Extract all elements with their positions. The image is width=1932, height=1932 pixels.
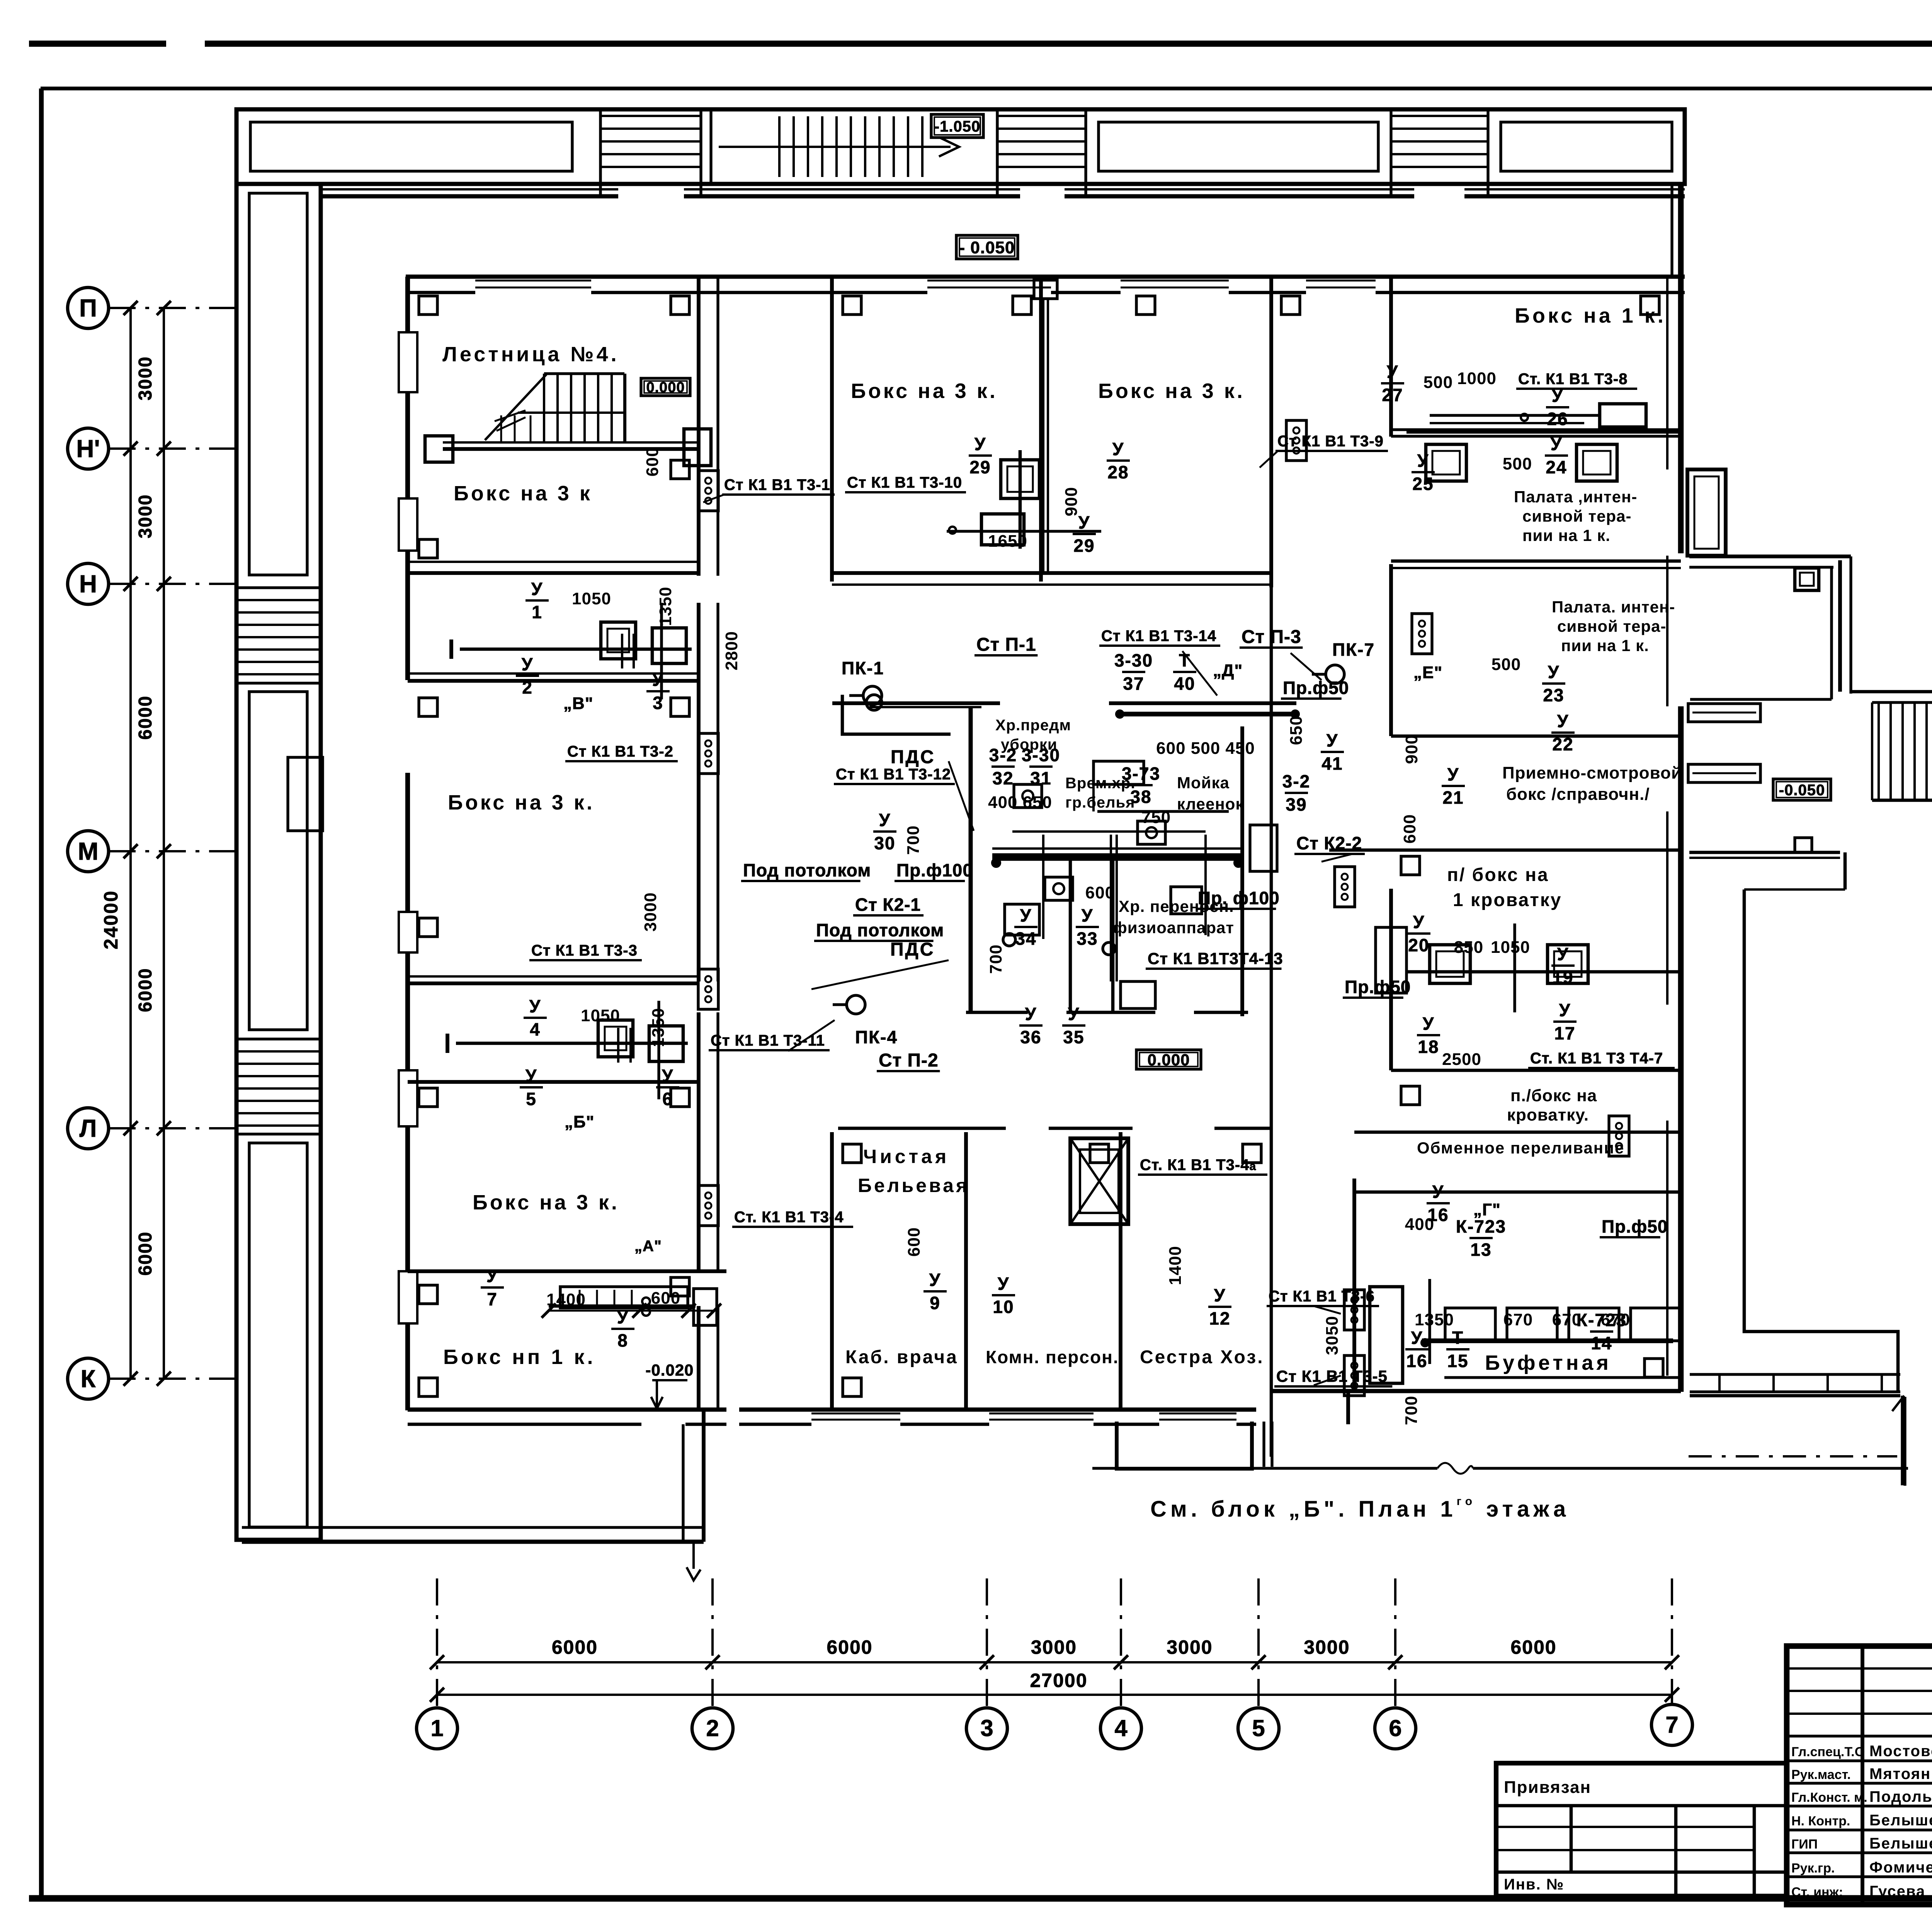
svg-text:Фомичев: Фомичев	[1869, 1859, 1932, 1876]
svg-text:„В": „В"	[563, 694, 594, 713]
svg-text:9: 9	[930, 1293, 940, 1313]
svg-text:Пр.ф50: Пр.ф50	[1283, 678, 1349, 698]
svg-text:1400: 1400	[546, 1290, 586, 1309]
svg-text:6000: 6000	[135, 1231, 156, 1276]
svg-text:У: У	[1557, 944, 1569, 964]
svg-text:33: 33	[1077, 929, 1098, 949]
svg-text:Мойка: Мойка	[1177, 774, 1230, 792]
svg-text:3-73: 3-73	[1122, 764, 1160, 784]
svg-text:650: 650	[1287, 716, 1306, 745]
svg-text:13: 13	[1470, 1240, 1492, 1260]
svg-text:У: У	[531, 579, 543, 599]
svg-text:Ст К1 В1 Т3-6: Ст К1 В1 Т3-6	[1269, 1288, 1375, 1305]
svg-text:У: У	[1327, 730, 1338, 750]
svg-text:36: 36	[1020, 1027, 1041, 1047]
svg-text:Ст К1 В1 Т3-11: Ст К1 В1 Т3-11	[711, 1032, 825, 1049]
svg-text:600: 600	[643, 447, 662, 476]
svg-text:-0.050: -0.050	[1779, 782, 1825, 799]
svg-text:Ст. К1 В1 Т3 Т4-7: Ст. К1 В1 Т3 Т4-7	[1530, 1050, 1663, 1067]
svg-text:Ст К1 В1 Т3-5: Ст К1 В1 Т3-5	[1276, 1367, 1388, 1385]
svg-text:700: 700	[986, 944, 1005, 974]
svg-text:37: 37	[1123, 673, 1144, 694]
svg-text:„Б": „Б"	[565, 1112, 595, 1131]
svg-text:Рук.маст.: Рук.маст.	[1791, 1767, 1851, 1782]
svg-text:пии на 1 к.: пии на 1 к.	[1522, 526, 1611, 544]
svg-text:Гл.Конст. м.: Гл.Конст. м.	[1791, 1790, 1867, 1805]
svg-text:Бокс на 3 к.: Бокс на 3 к.	[473, 1191, 619, 1214]
svg-text:670: 670	[1601, 1310, 1630, 1329]
svg-text:У: У	[1020, 905, 1032, 925]
svg-text:2800: 2800	[722, 631, 741, 670]
svg-text:Приемно-смотровой: Приемно-смотровой	[1502, 764, 1682, 782]
svg-text:500: 500	[1423, 373, 1453, 392]
svg-text:Ст К1 В1 Т3-10: Ст К1 В1 Т3-10	[847, 474, 962, 491]
svg-text:3000: 3000	[135, 494, 156, 539]
svg-text:4: 4	[530, 1019, 541, 1039]
svg-text:1400: 1400	[1166, 1246, 1185, 1285]
svg-text:кроватку.: кроватку.	[1507, 1105, 1589, 1124]
svg-text:Чистая: Чистая	[863, 1146, 949, 1167]
svg-text:Палата. интен-: Палата. интен-	[1552, 598, 1675, 616]
svg-text:Бокс на 1 к.: Бокс на 1 к.	[1515, 304, 1666, 327]
svg-text:6000: 6000	[552, 1636, 598, 1658]
svg-text:Бокс на 3 к.: Бокс на 3 к.	[448, 791, 595, 814]
svg-text:20: 20	[1408, 935, 1429, 955]
svg-text:29: 29	[969, 457, 991, 477]
svg-text:У: У	[1411, 1328, 1423, 1348]
svg-text:К-723: К-723	[1456, 1216, 1506, 1236]
svg-text:П: П	[79, 294, 97, 322]
svg-text:3-2: 3-2	[1282, 771, 1310, 791]
svg-text:ПДС: ПДС	[891, 747, 935, 767]
svg-text:Ст К1 В1 Т3-1: Ст К1 В1 Т3-1	[724, 476, 830, 493]
svg-text:6000: 6000	[135, 696, 156, 740]
svg-text:ПК-1: ПК-1	[842, 658, 884, 678]
svg-text:28: 28	[1107, 462, 1129, 482]
svg-text:У: У	[1423, 1014, 1435, 1034]
svg-text:3000: 3000	[1031, 1636, 1077, 1658]
svg-text:У: У	[1559, 1000, 1571, 1020]
svg-text:См. блок „Б". План 1го эт: См. блок „Б". План 1го этажа	[1150, 1495, 1570, 1522]
svg-text:У: У	[662, 1066, 674, 1086]
svg-text:2: 2	[522, 677, 533, 697]
svg-text:У: У	[1551, 434, 1563, 454]
svg-text:670: 670	[1503, 1310, 1533, 1329]
svg-text:16: 16	[1406, 1351, 1427, 1371]
svg-text:Н': Н'	[76, 435, 100, 463]
svg-text:5: 5	[526, 1089, 537, 1109]
svg-text:Буфетная: Буфетная	[1485, 1351, 1612, 1374]
svg-text:Бокс на 3 к.: Бокс на 3 к.	[851, 379, 998, 403]
svg-text:600: 600	[905, 1227, 923, 1257]
svg-text:17: 17	[1554, 1023, 1575, 1043]
svg-text:23: 23	[1543, 685, 1564, 705]
svg-text:клеенок: клеенок	[1177, 795, 1244, 813]
svg-text:39: 39	[1286, 794, 1307, 815]
svg-text:41: 41	[1321, 753, 1343, 774]
svg-text:2: 2	[706, 1715, 719, 1741]
svg-text:Ст К1 В1 Т3-12: Ст К1 В1 Т3-12	[836, 766, 951, 783]
svg-text:Н: Н	[79, 570, 97, 598]
svg-text:Ст П-3: Ст П-3	[1242, 627, 1301, 647]
svg-text:У: У	[1557, 711, 1569, 731]
svg-text:700: 700	[904, 825, 923, 855]
svg-text:400: 400	[1405, 1215, 1434, 1234]
svg-text:Ст. К1 В1 Т3-8: Ст. К1 В1 Т3-8	[1518, 371, 1628, 388]
svg-text:7: 7	[487, 1289, 498, 1309]
svg-text:У: У	[1387, 362, 1399, 382]
svg-text:1350: 1350	[656, 587, 675, 626]
svg-text:3-30: 3-30	[1022, 745, 1060, 765]
svg-text:К: К	[80, 1365, 96, 1393]
svg-text:бокс /справочн./: бокс /справочн./	[1506, 785, 1650, 804]
svg-text:6000: 6000	[135, 968, 156, 1012]
svg-text:4: 4	[1114, 1715, 1128, 1741]
svg-text:Бельевая: Бельевая	[858, 1175, 969, 1196]
svg-text:У: У	[1112, 439, 1124, 459]
svg-text:Комн. персон.: Комн. персон.	[986, 1347, 1119, 1367]
svg-text:19: 19	[1552, 967, 1573, 987]
svg-text:600: 600	[651, 1289, 680, 1308]
svg-text:27000: 27000	[1030, 1670, 1087, 1691]
svg-text:Ст П-2: Ст П-2	[879, 1050, 939, 1071]
svg-text:1050: 1050	[1491, 938, 1530, 957]
svg-text:Бокс нп 1 к.: Бокс нп 1 к.	[443, 1345, 595, 1369]
svg-text:У: У	[1214, 1285, 1226, 1305]
svg-text:Ст К1 В1Т3Т4-13: Ст К1 В1Т3Т4-13	[1148, 949, 1283, 968]
svg-text:У: У	[1025, 1004, 1037, 1024]
svg-text:Обменное переливание: Обменное переливание	[1417, 1139, 1624, 1157]
svg-text:У: У	[998, 1274, 1010, 1294]
svg-text:„Д": „Д"	[1213, 661, 1243, 680]
svg-text:3: 3	[980, 1715, 993, 1741]
svg-text:0.000: 0.000	[1147, 1051, 1190, 1069]
svg-text:У: У	[1552, 386, 1564, 406]
svg-text:У: У	[1417, 451, 1429, 471]
svg-text:850: 850	[1454, 938, 1483, 957]
svg-text:3000: 3000	[135, 356, 156, 401]
svg-text:Ст К2-2: Ст К2-2	[1296, 833, 1362, 853]
svg-text:У: У	[1548, 662, 1560, 682]
svg-text:Н. Контр.: Н. Контр.	[1791, 1814, 1850, 1828]
svg-text:Ст К1 В1 Т3-3: Ст К1 В1 Т3-3	[531, 942, 638, 959]
svg-text:35: 35	[1063, 1027, 1084, 1047]
svg-text:Ст. К1 В1 Т3-4а: Ст. К1 В1 Т3-4а	[1140, 1156, 1256, 1173]
svg-text:Ст К1 В1 Т3-2: Ст К1 В1 Т3-2	[567, 743, 673, 760]
svg-text:29: 29	[1073, 536, 1095, 556]
svg-text:5: 5	[1252, 1715, 1265, 1741]
svg-text:30: 30	[874, 833, 895, 853]
svg-text:500: 500	[1503, 454, 1532, 473]
svg-text:У: У	[1082, 905, 1094, 925]
svg-text:6: 6	[662, 1089, 673, 1109]
svg-text:14: 14	[1591, 1333, 1612, 1353]
svg-text:У: У	[1432, 1182, 1444, 1202]
svg-text:Ст. инж:: Ст. инж:	[1791, 1885, 1843, 1900]
svg-text:Сестра Хоз.: Сестра Хоз.	[1140, 1347, 1264, 1367]
svg-text:3000: 3000	[1167, 1636, 1213, 1658]
svg-text:У: У	[1447, 764, 1459, 784]
svg-text:400 650: 400 650	[988, 793, 1052, 812]
svg-text:3000: 3000	[1304, 1636, 1350, 1658]
svg-text:10: 10	[993, 1297, 1014, 1317]
svg-text:Пр.ф50: Пр.ф50	[1602, 1216, 1668, 1236]
svg-text:32: 32	[992, 768, 1014, 788]
svg-text:ПК-4: ПК-4	[855, 1027, 898, 1047]
svg-text:1350: 1350	[649, 1008, 668, 1047]
svg-text:ПК-7: ПК-7	[1332, 639, 1375, 660]
svg-text:18: 18	[1418, 1037, 1439, 1057]
svg-text:25: 25	[1412, 474, 1434, 494]
svg-text:Пр. ф100: Пр. ф100	[1198, 888, 1280, 908]
svg-text:У: У	[1413, 912, 1425, 932]
svg-text:Палата ,интен-: Палата ,интен-	[1514, 488, 1637, 506]
svg-text:гр.белья: гр.белья	[1065, 794, 1135, 811]
svg-text:„А": „А"	[634, 1238, 662, 1255]
svg-text:3: 3	[653, 693, 663, 713]
svg-text:Ст К2-1: Ст К2-1	[855, 895, 921, 915]
svg-text:38: 38	[1130, 787, 1151, 807]
svg-text:Белышева: Белышева	[1869, 1835, 1932, 1852]
svg-text:1000: 1000	[1457, 369, 1497, 388]
svg-text:6: 6	[1389, 1715, 1401, 1741]
svg-text:27: 27	[1382, 385, 1403, 405]
svg-text:У: У	[529, 996, 541, 1016]
svg-text:Пр.ф100: Пр.ф100	[896, 860, 973, 880]
svg-text:Белышева: Белышева	[1869, 1812, 1932, 1829]
svg-text:-0.020: -0.020	[645, 1361, 694, 1379]
svg-text:Рук.гр.: Рук.гр.	[1791, 1861, 1835, 1876]
svg-text:12: 12	[1209, 1308, 1230, 1328]
svg-text:Ст К1 В1 Т3-9: Ст К1 В1 Т3-9	[1277, 433, 1384, 450]
svg-text:У: У	[929, 1270, 941, 1290]
svg-text:1: 1	[430, 1715, 443, 1741]
svg-text:Подольский: Подольский	[1869, 1788, 1932, 1805]
svg-text:600: 600	[1400, 814, 1419, 844]
svg-text:пии на 1 к.: пии на 1 к.	[1561, 636, 1649, 655]
svg-text:600 500 450: 600 500 450	[1156, 739, 1255, 758]
svg-text:Т: Т	[1452, 1328, 1464, 1348]
svg-text:У: У	[522, 654, 534, 674]
svg-text:1050: 1050	[581, 1006, 620, 1025]
svg-text:Бокс на 3 к.: Бокс на 3 к.	[1098, 379, 1245, 403]
svg-text:22: 22	[1552, 734, 1573, 754]
svg-text:Л: Л	[80, 1114, 97, 1142]
svg-text:Хр.предм: Хр.предм	[995, 717, 1071, 734]
svg-text:п./бокс на: п./бокс на	[1510, 1086, 1597, 1105]
svg-text:3000: 3000	[641, 892, 660, 932]
svg-text:„Е": „Е"	[1413, 663, 1442, 682]
svg-text:600: 600	[1085, 883, 1115, 902]
svg-text:У: У	[526, 1066, 537, 1086]
svg-text:сивной тера-: сивной тера-	[1522, 507, 1631, 525]
svg-text:Пр.ф50: Пр.ф50	[1345, 977, 1411, 997]
svg-text:34: 34	[1015, 929, 1036, 949]
svg-text:1650: 1650	[988, 532, 1027, 551]
svg-text:1: 1	[532, 602, 543, 622]
svg-text:п/ бокс на: п/ бокс на	[1447, 865, 1549, 885]
svg-text:Под потолком: Под потолком	[816, 920, 944, 940]
svg-text:1 кроватку: 1 кроватку	[1453, 890, 1562, 910]
svg-text:6000: 6000	[1510, 1636, 1556, 1658]
svg-text:1050: 1050	[572, 589, 611, 608]
svg-text:3-2: 3-2	[989, 745, 1017, 765]
svg-text:Под потолком: Под потолком	[743, 860, 871, 880]
svg-text:- 0.050: - 0.050	[959, 238, 1015, 257]
svg-text:Гусева: Гусева	[1869, 1883, 1925, 1900]
svg-text:У: У	[617, 1307, 629, 1327]
svg-text:15: 15	[1447, 1351, 1468, 1371]
svg-text:3050: 3050	[1323, 1316, 1342, 1355]
svg-text:физиоаппарат: физиоаппарат	[1113, 918, 1234, 937]
svg-text:Мостовой: Мостовой	[1869, 1743, 1932, 1760]
svg-text:21: 21	[1442, 787, 1464, 808]
svg-text:сивной тера-: сивной тера-	[1557, 617, 1666, 635]
svg-text:8: 8	[617, 1330, 628, 1350]
svg-text:У: У	[879, 810, 891, 830]
svg-text:Инв. №: Инв. №	[1504, 1876, 1564, 1893]
svg-text:500: 500	[1492, 655, 1521, 674]
svg-text:Бокс на 3 к: Бокс на 3 к	[454, 482, 592, 505]
svg-text:ГИП: ГИП	[1791, 1837, 1818, 1852]
svg-text:900: 900	[1062, 487, 1081, 516]
svg-text:40: 40	[1174, 673, 1195, 694]
svg-text:3-30: 3-30	[1114, 650, 1153, 670]
svg-text:Каб. врача: Каб. врача	[845, 1347, 958, 1367]
svg-text:24: 24	[1546, 457, 1567, 477]
svg-text:Привязан: Привязан	[1504, 1778, 1591, 1797]
svg-text:Лестница №4.: Лестница №4.	[442, 343, 619, 366]
svg-text:Гл.спец.Т.О: Гл.спец.Т.О	[1791, 1745, 1865, 1759]
svg-text:М: М	[78, 837, 98, 865]
svg-text:24000: 24000	[100, 890, 122, 949]
svg-text:Ст. К1 В1 Т3-4: Ст. К1 В1 Т3-4	[734, 1209, 844, 1226]
svg-text:0.000: 0.000	[646, 379, 685, 396]
svg-text:900: 900	[1402, 735, 1421, 764]
svg-text:У: У	[1068, 1004, 1080, 1024]
svg-text:Ст П-1: Ст П-1	[976, 634, 1036, 655]
svg-text:7: 7	[1665, 1712, 1678, 1738]
svg-text:Ст К1 В1 Т3-14: Ст К1 В1 Т3-14	[1101, 628, 1216, 645]
svg-text:31: 31	[1030, 768, 1051, 788]
svg-text:ПДС: ПДС	[890, 939, 935, 960]
svg-text:У: У	[652, 670, 664, 690]
svg-text:6000: 6000	[827, 1636, 872, 1658]
svg-text:750: 750	[1141, 808, 1171, 827]
svg-text:700: 700	[1402, 1396, 1421, 1425]
svg-text:26: 26	[1547, 409, 1568, 429]
svg-text:1350: 1350	[1415, 1310, 1454, 1329]
svg-text:670: 670	[1552, 1310, 1582, 1329]
svg-text:2500: 2500	[1442, 1050, 1481, 1069]
svg-text:У: У	[486, 1266, 498, 1286]
svg-text:Мятоян: Мятоян	[1869, 1765, 1931, 1782]
svg-text:У: У	[975, 434, 986, 454]
svg-text:-1.050: -1.050	[934, 118, 980, 135]
